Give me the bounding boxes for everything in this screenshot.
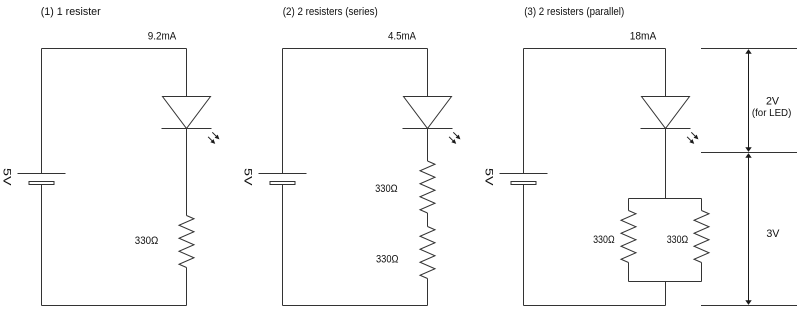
wire: circuit 3 LED cathode down to parallel node [665, 129, 667, 199]
wire: circuit 1 top [42, 48, 187, 50]
battery B2 (5V cell) [259, 174, 307, 185]
wire: circuit 1 right upper (top to LED anode) [186, 49, 188, 97]
resistor R2 330Ω (upper, series) [420, 161, 435, 213]
wire: circuit 2 top [283, 48, 428, 50]
dimension arrow: 3V across resistors [745, 153, 751, 305]
svg-text:3V: 3V [766, 228, 780, 240]
LED D2 light-emission arrows [449, 132, 460, 143]
node: reference line at LED cathode potential [701, 152, 797, 154]
node: parallel top junction bar [629, 198, 702, 200]
resistor R3 330Ω (lower, series) [420, 227, 435, 279]
wire: right branch upper lead [701, 199, 703, 211]
svg-text:5V: 5V [242, 168, 254, 187]
wire: circuit 3 left lower (battery - to bottom) [523, 185, 525, 306]
svg-text:18mA: 18mA [630, 31, 657, 43]
resistor R4 330Ω (left, parallel) [621, 211, 636, 263]
svg-text:4.5mA: 4.5mA [388, 31, 417, 43]
wire: left branch lower lead [628, 263, 630, 282]
wire: parallel bottom node to circuit 3 bottom [665, 282, 667, 306]
svg-text:330Ω: 330Ω [375, 183, 398, 195]
svg-text:330Ω: 330Ω [376, 253, 399, 265]
wire: circuit 2 left lower (battery - to bottom) [282, 185, 284, 306]
svg-text:9.2mA: 9.2mA [148, 31, 177, 43]
svg-text:2V: 2V [766, 96, 780, 108]
resistor R5 330Ω (right, parallel) [694, 211, 709, 263]
wire: circuit 2 bottom [283, 305, 428, 307]
wire: circuit 1 left lower (battery - to bottom) [41, 185, 43, 306]
wire: circuit 1 left upper (to battery +) [41, 49, 43, 174]
wire: left branch upper lead [628, 199, 630, 211]
wire: circuit 3 bottom [524, 305, 666, 307]
LED D1 light-emission arrows [208, 132, 219, 143]
svg-text:330Ω: 330Ω [135, 235, 159, 247]
wire: circuit 2 resistor R3 to bottom [427, 279, 429, 306]
label 2V (for LED) [752, 96, 792, 119]
svg-text:(for LED): (for LED) [752, 108, 792, 119]
svg-text:(2) 2 resisters (series): (2) 2 resisters (series) [283, 6, 378, 18]
svg-text:5V: 5V [483, 168, 495, 187]
wire: circuit 1 bottom [42, 305, 187, 307]
node: reference line at supply + potential [701, 48, 797, 50]
svg-text:5V: 5V [1, 168, 13, 187]
battery B3 (5V cell) [500, 174, 548, 185]
wire: circuit 2 LED cathode to resistor R2 [427, 129, 429, 162]
svg-text:330Ω: 330Ω [667, 234, 689, 246]
wire: between resistor R2 and resistor R3 [427, 213, 429, 227]
wire: circuit 1 LED cathode to resistor R1 [186, 129, 188, 216]
wire: circuit 3 top [524, 48, 666, 50]
battery B1 (5V cell) [18, 174, 66, 185]
wire: circuit 3 right upper (top to LED anode) [665, 49, 667, 97]
LED D2 [403, 97, 453, 129]
wire: circuit 1 resistor R1 to bottom [186, 268, 188, 306]
svg-text:330Ω: 330Ω [593, 234, 615, 246]
svg-text:(3) 2 resisters (parallel): (3) 2 resisters (parallel) [524, 6, 624, 18]
LED D3 [641, 97, 691, 129]
node: parallel bottom junction bar [629, 281, 702, 283]
wire: right branch lower lead [701, 263, 703, 282]
LED D1 [162, 97, 212, 129]
LED D3 light-emission arrows [687, 132, 698, 143]
dimension arrow: 2V across LED [745, 49, 751, 152]
svg-text:(1) 1 resister: (1) 1 resister [41, 6, 101, 18]
node: reference line at supply - potential [701, 305, 797, 307]
resistor R1 330Ω [179, 216, 194, 268]
wire: circuit 3 left upper (to battery +) [523, 49, 525, 174]
wire: circuit 2 left upper (to battery +) [282, 49, 284, 174]
wire: circuit 2 right upper (top to LED anode) [427, 49, 429, 97]
